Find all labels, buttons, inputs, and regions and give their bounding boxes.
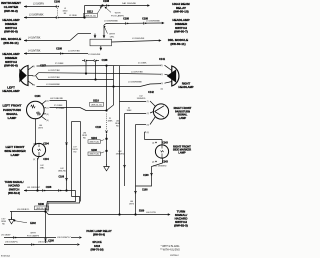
svg-text:(1(: (1(: [46, 108, 49, 110]
svg-text:(2(: (2(: [46, 101, 49, 103]
svg-text:L3 18GRN/BK: L3 18GRN/BK: [104, 21, 118, 23]
svg-text:(8W-50-12): (8W-50-12): [85, 15, 96, 17]
svg-text:L3 18GRN: L3 18GRN: [33, 4, 44, 6]
svg-text:(1(: (1(: [152, 143, 155, 145]
svg-text:PARK/TURN: PARK/TURN: [175, 109, 190, 113]
svg-text:(8W-52-3): (8W-52-3): [174, 224, 188, 228]
svg-text:(8W-50-9): (8W-50-9): [93, 233, 105, 237]
svg-text:L60 18TN: L60 18TN: [146, 212, 156, 214]
svg-text:S112: S112: [87, 11, 93, 14]
svg-text:(2(: (2(: [33, 159, 36, 161]
svg-text:E102: E102: [30, 222, 36, 225]
svg-text:Z1 18BK: Z1 18BK: [138, 63, 147, 65]
svg-text:L3 18GRN/BK: L3 18GRN/BK: [128, 82, 142, 84]
svg-text:L3 18GRN/BK: L3 18GRN/BK: [146, 20, 160, 22]
svg-text:C108: C108: [59, 176, 65, 178]
svg-text:L90 18DB*: L90 18DB*: [1, 235, 11, 237]
svg-text:(8W-52-2): (8W-52-2): [8, 191, 20, 195]
svg-text:C100: C100: [54, 1, 61, 4]
svg-text:C141: C141: [159, 58, 166, 61]
svg-text:RIGHT FRONT: RIGHT FRONT: [174, 106, 192, 110]
svg-text:18GN/RD: 18GN/RD: [137, 98, 146, 100]
svg-text:C108: C108: [143, 175, 149, 177]
svg-text:L3 18GRN/BK: L3 18GRN/BK: [29, 15, 44, 17]
svg-text:L90 18DB/YL: L90 18DB/YL: [5, 242, 19, 244]
svg-text:* WITH 2.5L ENG: * WITH 2.5L ENG: [161, 245, 180, 248]
svg-text:L4 18VT/BK: L4 18VT/BK: [28, 38, 41, 40]
svg-text:(8W-70-6): (8W-70-6): [90, 154, 100, 156]
svg-text:18TN: 18TN: [129, 204, 134, 206]
svg-text:L3 18GD/BK: L3 18GD/BK: [88, 54, 101, 56]
svg-text:LAMP: LAMP: [178, 151, 186, 155]
svg-text:J978W-2: J978W-2: [170, 255, 179, 257]
svg-text:(1(: (1(: [147, 101, 150, 103]
svg-text:L4 18VT/BK: L4 18VT/BK: [28, 51, 41, 53]
svg-text:TURN SIGNAL/: TURN SIGNAL/: [4, 180, 23, 184]
svg-text:L3 18GRN/BK: L3 18GRN/BK: [46, 84, 60, 86]
svg-text:C108: C108: [102, 59, 108, 62]
svg-text:(8W-40-2): (8W-40-2): [4, 9, 18, 13]
svg-text:S108: S108: [91, 149, 97, 152]
svg-text:S104: S104: [91, 137, 97, 140]
svg-text:SPLICE: SPLICE: [92, 240, 102, 244]
svg-text:C143: C143: [162, 161, 168, 164]
svg-text:(8W-70-6): (8W-70-6): [90, 141, 100, 143]
svg-text:(8W-50-8): (8W-50-8): [4, 30, 18, 34]
svg-text:8O49Jad: 8O49Jad: [1, 256, 11, 258]
svg-text:L4 18VT/BK: L4 18VT/BK: [48, 77, 60, 79]
svg-text:(3(: (3(: [161, 83, 164, 85]
svg-text:(8W-50-12): (8W-50-12): [91, 104, 102, 106]
svg-text:(2(: (2(: [152, 162, 155, 164]
svg-text:(2(: (2(: [33, 76, 36, 78]
svg-text:Z1 18BK: Z1 18BK: [55, 63, 64, 65]
svg-text:C108: C108: [123, 17, 129, 20]
svg-text:SIGNAL: SIGNAL: [178, 113, 188, 117]
svg-text:L62 18BL/RD: L62 18BL/RD: [50, 98, 64, 100]
svg-text:18TN: 18TN: [38, 128, 43, 130]
svg-text:18BK: 18BK: [127, 110, 133, 112]
svg-text:S130: S130: [38, 203, 44, 206]
svg-text:L3 18GD/BK: L3 18GD/BK: [132, 38, 145, 40]
svg-text:Z1 18BK: Z1 18BK: [56, 108, 65, 110]
svg-text:C108: C108: [103, 0, 110, 3]
svg-text:FOG LAMPS: FOG LAMPS: [27, 235, 40, 238]
svg-text:L3 18GD: L3 18GD: [69, 15, 78, 17]
svg-text:L61 18RD/WT: L61 18RD/WT: [27, 187, 41, 189]
svg-text:(4(: (4(: [161, 89, 164, 91]
svg-text:(2(: (2(: [161, 74, 164, 76]
svg-text:HEADLAMP: HEADLAMP: [2, 89, 19, 93]
svg-text:(8W-50-12): (8W-50-12): [36, 208, 47, 210]
svg-text:LAMP: LAMP: [11, 153, 20, 157]
svg-text:LAMP: LAMP: [179, 116, 187, 120]
svg-text:** WITH 4.0L ENG: ** WITH 4.0L ENG: [160, 249, 180, 252]
svg-text:L90 18DB/YL: L90 18DB/YL: [17, 209, 30, 211]
svg-text:RIGHT: RIGHT: [182, 82, 191, 86]
svg-text:18BK: 18BK: [108, 121, 114, 123]
svg-text:L90 18DB/YL: L90 18DB/YL: [38, 242, 52, 244]
svg-text:(8W-50-6): (8W-50-6): [4, 64, 18, 68]
svg-text:DA1 18GD/BK: DA1 18GD/BK: [122, 2, 137, 5]
svg-text:SWITCH: SWITCH: [9, 187, 20, 191]
svg-text:LAMP: LAMP: [8, 116, 17, 120]
svg-text:C108: C108: [56, 48, 62, 51]
svg-text:HAZARD: HAZARD: [8, 184, 19, 188]
svg-text:C104: C104: [43, 158, 49, 161]
svg-text:HEADLAMP: HEADLAMP: [178, 85, 193, 89]
svg-text:(8W-50-11): (8W-50-11): [3, 41, 18, 45]
svg-text:C104: C104: [35, 95, 41, 98]
svg-text:(8W-70-16): (8W-70-16): [90, 247, 103, 251]
svg-text:L4 18VT/BK: L4 18VT/BK: [68, 51, 80, 53]
svg-text:18BL/RD: 18BL/RD: [58, 171, 67, 173]
svg-text:C108: C108: [46, 187, 52, 189]
svg-text:S109: S109: [139, 210, 145, 212]
svg-text:WITH: WITH: [115, 12, 121, 14]
svg-text:(1(: (1(: [33, 66, 36, 68]
svg-text:(4(: (4(: [147, 132, 150, 134]
svg-text:S418: S418: [94, 244, 101, 248]
svg-text:(3(: (3(: [46, 114, 49, 116]
svg-text:C142: C142: [148, 91, 154, 94]
svg-text:L90 18DB/YL*: L90 18DB/YL*: [57, 237, 71, 239]
svg-text:WITH: WITH: [30, 233, 36, 235]
svg-text:C143: C143: [162, 142, 168, 145]
svg-text:(8W-50-11): (8W-50-11): [170, 42, 185, 46]
svg-text:(4(: (4(: [46, 120, 49, 122]
svg-text:18GN/RD: 18GN/RD: [116, 154, 125, 156]
svg-text:PARK LAMP RELAY: PARK LAMP RELAY: [86, 229, 112, 233]
svg-text:C110: C110: [95, 126, 101, 129]
svg-text:C108: C108: [142, 189, 148, 191]
svg-text:L4 18VT/BK: L4 18VT/BK: [48, 70, 60, 72]
svg-text:(3(: (3(: [147, 125, 150, 127]
svg-text:L62 18GN/RD: L62 18GN/RD: [154, 165, 168, 167]
svg-text:S110: S110: [93, 100, 99, 103]
svg-text:Z1 18BK: Z1 18BK: [54, 105, 63, 107]
svg-text:(3(: (3(: [33, 85, 36, 87]
svg-text:L4 18VT/BK: L4 18VT/BK: [131, 71, 143, 73]
svg-text:(2(: (2(: [147, 113, 150, 115]
svg-text:C104: C104: [43, 142, 49, 145]
svg-text:(8W-50-7): (8W-50-7): [174, 30, 188, 34]
svg-text:(8W-50-10): (8W-50-10): [173, 10, 188, 14]
svg-text:WITH: WITH: [109, 34, 115, 36]
svg-text:DRL: DRL: [110, 37, 115, 39]
